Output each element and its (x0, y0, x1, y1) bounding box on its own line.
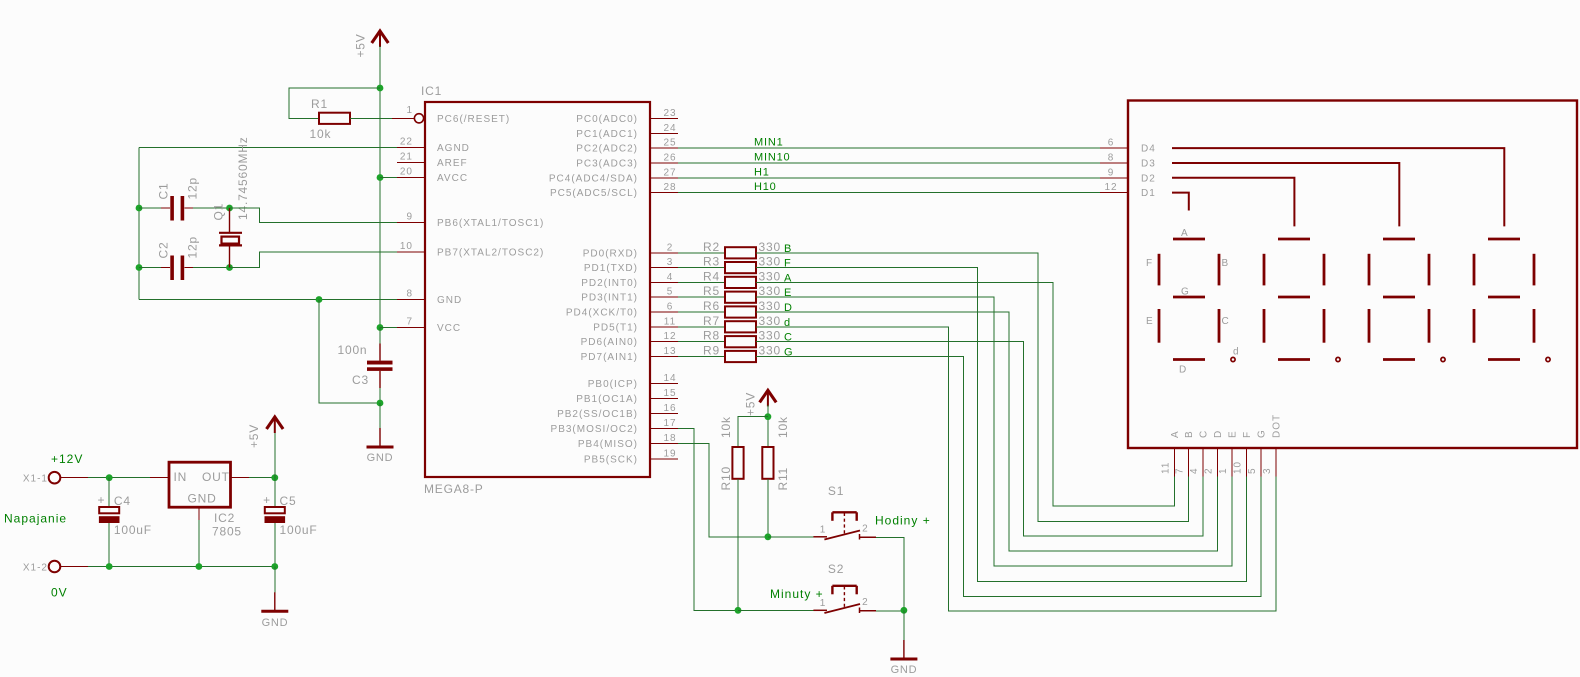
wire R11 bottom to S1 row (767, 479, 769, 537)
svg-text:27: 27 (663, 167, 676, 178)
pin 15 PB1(OC1A) (576, 388, 678, 405)
svg-text:PB6(XTAL1/TOSC1): PB6(XTAL1/TOSC1) (437, 218, 544, 229)
net label C (784, 332, 793, 344)
svg-text:12p: 12p (186, 177, 200, 199)
+5V label top (354, 33, 368, 57)
svg-text:PD6(AIN0): PD6(AIN0) (581, 337, 638, 348)
svg-text:AVCC: AVCC (437, 173, 468, 184)
wire S1 right down to GND node (876, 537, 904, 610)
pin 16 PB2(SS/OC1B) (557, 403, 678, 420)
ground symbol buttons (890, 640, 917, 676)
svg-text:MIN1: MIN1 (754, 137, 783, 149)
svg-text:S1: S1 (828, 484, 844, 498)
svg-text:PC2(ADC2): PC2(ADC2) (576, 144, 638, 155)
svg-text:26: 26 (663, 153, 676, 164)
svg-text:20: 20 (400, 167, 413, 178)
svg-text:12: 12 (663, 331, 676, 342)
junction C3/GND (377, 400, 384, 407)
svg-text:PD0(RXD): PD0(RXD) (583, 248, 638, 259)
svg-text:0V: 0V (51, 586, 68, 600)
junction OUT/C5/+5V (271, 474, 278, 481)
svg-text:7805: 7805 (212, 525, 242, 539)
wire to GND below C3 (379, 403, 381, 428)
svg-text:23: 23 (663, 108, 676, 119)
svg-text:1: 1 (1218, 467, 1229, 474)
svg-text:9: 9 (406, 212, 413, 223)
svg-text:5: 5 (667, 287, 674, 298)
svg-text:21: 21 (400, 152, 413, 163)
pin 13 PD7(AIN1) (581, 346, 678, 363)
svg-text:S2: S2 (828, 562, 844, 576)
wire S2 left (738, 609, 813, 611)
svg-text:R10: R10 (719, 466, 733, 490)
wire R1 branch from +5V (289, 88, 380, 118)
svg-text:2: 2 (862, 523, 869, 534)
display segment pin 4 C (1189, 430, 1210, 477)
pin 6 PD4(XCK/T0) (566, 302, 678, 319)
svg-text:Napajanie: Napajanie (4, 512, 67, 526)
svg-text:D: D (1213, 430, 1224, 438)
svg-text:PD2(INT0): PD2(INT0) (581, 278, 638, 289)
wire down to GND regulator (274, 567, 276, 593)
svg-text:22: 22 (400, 137, 413, 148)
svg-text:2: 2 (862, 597, 869, 608)
svg-text:A: A (1181, 228, 1189, 239)
svg-text:6: 6 (1108, 138, 1115, 149)
+5V label regulator (247, 424, 261, 448)
display digit select pin D4 (1141, 144, 1156, 155)
svg-text:8: 8 (1108, 153, 1115, 164)
wire pin 5 to R5 (678, 296, 725, 298)
svg-text:6: 6 (667, 302, 674, 313)
net label A (784, 272, 792, 284)
junction C1 left (136, 205, 143, 212)
svg-text:R6: R6 (703, 299, 720, 313)
internal wire D3 (1172, 163, 1399, 226)
wire S1 left (768, 536, 814, 538)
svg-text:A: A (1170, 430, 1181, 438)
svg-text:1: 1 (406, 105, 413, 116)
svg-text:330: 330 (759, 344, 781, 358)
pin 17 PB3(MOSI/OC2) (551, 418, 678, 435)
svg-text:D1: D1 (1141, 188, 1156, 199)
svg-text:Minuty +: Minuty + (770, 587, 824, 601)
wire GND net bottom run to pin 8 (139, 299, 397, 301)
resistor R6 330 (703, 299, 781, 318)
resistor R7 330 (703, 314, 781, 333)
svg-text:7: 7 (406, 317, 413, 328)
svg-text:C2: C2 (157, 242, 171, 259)
svg-text:330: 330 (759, 329, 781, 343)
svg-text:GND: GND (188, 492, 217, 506)
svg-text:+5V: +5V (354, 33, 368, 57)
net label G (784, 347, 793, 359)
svg-text:4: 4 (667, 272, 674, 283)
wire +5V to R10/R11 (767, 405, 769, 447)
+5V supply symbol top (372, 31, 389, 47)
crystal Q1 14.74560MHz (212, 136, 251, 267)
pin 2 PD0(RXD) (583, 242, 678, 259)
display segment pin 10 F (1233, 431, 1254, 477)
svg-text:PD3(INT1): PD3(INT1) (581, 293, 638, 304)
svg-text:10: 10 (1233, 461, 1244, 474)
display segment pin 2 D (1203, 430, 1224, 477)
display segment pin 11 A (1160, 430, 1181, 476)
svg-text:11: 11 (664, 316, 676, 327)
net label F (784, 258, 792, 270)
pin stub X1-1 (60, 477, 88, 479)
net label B (784, 243, 792, 255)
svg-text:12: 12 (1104, 182, 1117, 193)
svg-text:GND: GND (891, 664, 918, 676)
junction GND run / C3 branch (316, 296, 323, 303)
wire pin 3 to R3 (678, 267, 725, 269)
svg-text:AREF: AREF (437, 158, 468, 169)
display digit select pin D3 (1141, 159, 1156, 170)
wire net B to display (756, 253, 1188, 522)
svg-text:3: 3 (1262, 467, 1273, 474)
svg-text:PC1(ADC1): PC1(ADC1) (576, 129, 638, 140)
svg-text:5: 5 (1247, 467, 1258, 474)
pin 7 VCC (397, 317, 461, 335)
resistor R1 10k (310, 97, 351, 141)
wire net C to display (756, 342, 1203, 537)
svg-text:PC4(ADC4/SDA): PC4(ADC4/SDA) (549, 173, 638, 184)
wire net MIN10 (678, 152, 1100, 164)
7-segment digit 3 (1369, 239, 1445, 362)
switch S2 (813, 562, 876, 613)
net label d (784, 317, 791, 329)
junction VCC (377, 324, 397, 331)
svg-text:GND: GND (367, 452, 394, 464)
svg-text:330: 330 (759, 284, 781, 298)
svg-text:28: 28 (663, 182, 676, 193)
pin 1 stub with inverting bubble (392, 114, 424, 123)
internal wire D4 (1172, 148, 1504, 226)
capacitor C2 12p (139, 236, 200, 280)
capacitor C3 100n (338, 328, 393, 389)
wire pin 12 to R8 (678, 341, 725, 343)
svg-text:B: B (1222, 258, 1230, 269)
svg-text:D3: D3 (1141, 159, 1156, 170)
display segment pin 5 G (1247, 429, 1268, 476)
pin 21 AREF (397, 152, 468, 170)
svg-text:AGND: AGND (437, 143, 470, 154)
7-segment digit 4 (1474, 239, 1550, 362)
svg-text:PB3(MOSI/OC2): PB3(MOSI/OC2) (551, 424, 638, 435)
svg-text:2: 2 (1203, 467, 1214, 474)
wire C3 bottom (379, 388, 381, 403)
svg-text:F: F (1242, 431, 1253, 438)
svg-text:16: 16 (663, 403, 676, 414)
svg-text:C: C (1222, 316, 1230, 327)
svg-text:PB7(XTAL2/TOSC2): PB7(XTAL2/TOSC2) (437, 248, 544, 259)
svg-text:100n: 100n (338, 343, 368, 357)
wire AGND net top run (139, 147, 397, 149)
svg-text:MIN10: MIN10 (754, 152, 790, 164)
pin 10 PB7(XTAL2/TOSC2) (397, 241, 544, 259)
svg-text:1: 1 (820, 524, 827, 535)
svg-text:PD1(TXD): PD1(TXD) (584, 263, 638, 274)
wire pin 4 to R4 (678, 281, 725, 283)
pin 4 PD2(INT0) (581, 272, 678, 289)
svg-text:R1: R1 (311, 97, 328, 111)
capacitor C4 100uF (97, 478, 151, 567)
pin 1 PC6(/RESET) name (406, 105, 510, 125)
wire ground-left vertical (138, 148, 140, 300)
junction +5V R10 branch (765, 413, 772, 420)
pin 20 AVCC (397, 167, 468, 185)
pin 3 PD1(TXD) (584, 257, 678, 274)
svg-text:7: 7 (1174, 467, 1185, 474)
svg-text:100uF: 100uF (280, 523, 318, 537)
pin stub 7805 IN (150, 477, 169, 479)
display LD1 4-digit 7-segment body (1128, 101, 1577, 449)
wire pin 11 to R7 (678, 326, 725, 328)
svg-text:+: + (263, 493, 271, 507)
svg-text:VCC: VCC (437, 323, 461, 334)
display segment pin 1 E (1218, 430, 1239, 476)
svg-text:PD4(XCK/T0): PD4(XCK/T0) (566, 308, 638, 319)
wire R1 to pin 1 (350, 117, 392, 119)
svg-text:DOT: DOT (1272, 414, 1283, 438)
svg-text:H10: H10 (754, 181, 777, 193)
display pin 9 stub (1100, 167, 1128, 178)
svg-text:d: d (1233, 347, 1240, 358)
pin 14 PB0(ICP) (588, 373, 678, 390)
svg-text:9: 9 (1108, 167, 1115, 178)
svg-text:E: E (1228, 430, 1239, 438)
wire net G to display (756, 357, 1261, 597)
wire pin 18 to S1 row (678, 443, 768, 536)
svg-text:4: 4 (1189, 467, 1200, 474)
svg-text:+5V: +5V (744, 392, 758, 416)
junction crystal top (226, 205, 233, 212)
net label Hodiny + (875, 514, 931, 528)
display pin 12 stub (1100, 182, 1128, 193)
svg-text:10: 10 (400, 241, 413, 252)
wire net E to display (756, 297, 1232, 566)
svg-text:8: 8 (406, 289, 413, 300)
display pin 6 stub (1100, 138, 1128, 149)
svg-text:10k: 10k (719, 416, 733, 438)
wire S2 right (876, 610, 904, 612)
svg-text:R5: R5 (703, 284, 720, 298)
junction C2 left (136, 264, 143, 271)
svg-text:R9: R9 (703, 344, 720, 358)
display segment pin 3 DOT (1262, 414, 1283, 477)
svg-text:PB5(SCK): PB5(SCK) (584, 454, 638, 465)
pin stub 7805 GND (198, 507, 200, 520)
wire net D to display (756, 312, 1217, 551)
svg-text:D4: D4 (1141, 144, 1156, 155)
ground symbol below C3 (367, 428, 394, 464)
junction R10/S2 row (735, 607, 742, 614)
resistor R4 330 (703, 269, 781, 288)
wire C1 right to crystal top (193, 207, 230, 209)
svg-text:3: 3 (667, 257, 674, 268)
wire branch to R10 top (738, 417, 768, 447)
display digit select pin D1 (1141, 188, 1156, 199)
svg-text:PC6(/RESET): PC6(/RESET) (437, 114, 510, 125)
svg-text:PB2(SS/OC1B): PB2(SS/OC1B) (557, 409, 638, 420)
svg-text:G: G (1257, 429, 1268, 438)
svg-text:B: B (1184, 430, 1195, 438)
svg-text:C: C (1198, 430, 1209, 438)
wire net H10 (678, 181, 1100, 193)
svg-text:330: 330 (759, 255, 781, 269)
net label Napajanie (4, 512, 67, 526)
svg-text:R4: R4 (703, 269, 720, 283)
wire pin 6 to R6 (678, 311, 725, 313)
svg-text:15: 15 (663, 388, 676, 399)
svg-text:10k: 10k (776, 416, 790, 438)
wire X1-1 to 7805 IN (88, 477, 150, 479)
net label E (784, 287, 792, 299)
net label 0V (51, 586, 68, 600)
svg-text:C1: C1 (157, 183, 171, 200)
connector pad X1-2 (23, 561, 60, 574)
capacitor C5 100uF (263, 478, 317, 567)
junction 7805 GND (196, 563, 203, 570)
svg-text:H1: H1 (754, 166, 770, 178)
svg-text:24: 24 (663, 123, 676, 134)
pin 26 PC3(ADC3) (576, 153, 678, 170)
pin 19 PB5(SCK) (584, 448, 678, 465)
svg-text:PB4(MISO): PB4(MISO) (578, 439, 638, 450)
pin 8 GND (397, 289, 462, 307)
svg-text:E: E (1146, 316, 1154, 327)
resistor R10 10k (719, 416, 744, 490)
pin 11 PD5(T1) (593, 316, 678, 333)
svg-text:+: + (97, 493, 105, 507)
wire 7805 OUT to C5/+5V (249, 477, 275, 479)
svg-text:PD5(T1): PD5(T1) (593, 322, 638, 333)
svg-text:11: 11 (1160, 462, 1171, 474)
svg-text:Hodiny +: Hodiny + (875, 514, 931, 528)
svg-text:R3: R3 (703, 255, 720, 269)
svg-text:14: 14 (663, 373, 676, 384)
svg-text:25: 25 (663, 138, 676, 149)
display segment pin 7 B (1174, 430, 1195, 476)
svg-text:10k: 10k (310, 127, 332, 141)
internal wire D2 (1172, 178, 1294, 227)
ground symbol regulator (261, 592, 288, 629)
svg-text:2: 2 (667, 242, 674, 253)
svg-text:Q1: Q1 (212, 203, 226, 221)
svg-text:330: 330 (759, 299, 781, 313)
wire net F to display (756, 268, 1247, 582)
junction +5V / R1 branch (377, 85, 384, 92)
svg-text:OUT: OUT (202, 470, 230, 484)
net label Minuty + (770, 587, 824, 601)
wire 7805 GND down (198, 520, 200, 567)
svg-text:18: 18 (663, 433, 676, 444)
pin stub 7805 OUT (231, 477, 250, 479)
svg-text:PC0(ADC0): PC0(ADC0) (576, 114, 638, 125)
svg-text:14.74560MHz: 14.74560MHz (236, 136, 250, 220)
svg-text:C4: C4 (114, 494, 131, 508)
junction C4 bottom (106, 563, 113, 570)
wire pin 17 to S2 row (678, 429, 738, 611)
wire up to +5V arrow (274, 432, 276, 478)
junction AVCC (377, 174, 397, 181)
voltage regulator IC2 7805 (169, 462, 242, 538)
svg-text:GND: GND (437, 295, 462, 306)
svg-text:G: G (1181, 287, 1190, 298)
connector pad X1-1 (23, 472, 60, 485)
svg-text:PC3(ADC3): PC3(ADC3) (576, 159, 638, 170)
+5V label buttons (744, 392, 758, 416)
resistor R2 330 (703, 240, 781, 259)
pin 9 PB6(XTAL1/TOSC1) (397, 212, 544, 230)
pin 5 PD3(INT1) (581, 287, 678, 304)
svg-text:D2: D2 (1141, 173, 1156, 184)
svg-text:X1-1: X1-1 (23, 474, 48, 485)
svg-text:100uF: 100uF (114, 523, 152, 537)
wire GND branch down to C3 bottom (319, 300, 378, 404)
resistor R8 330 (703, 329, 781, 348)
wire crystal bottom to pin 10 (230, 252, 398, 268)
svg-text:PB1(OC1A): PB1(OC1A) (576, 394, 638, 405)
svg-text:C5: C5 (280, 494, 297, 508)
wire R10 bottom to S2 row (737, 479, 739, 611)
junction crystal bottom (226, 264, 233, 271)
svg-text:PC5(ADC5/SCL): PC5(ADC5/SCL) (550, 188, 638, 199)
svg-text:330: 330 (759, 240, 781, 254)
pin 25 PC2(ADC2) (576, 138, 678, 155)
svg-text:F: F (1146, 258, 1153, 269)
IC U1 MEGA8-P body (421, 84, 650, 496)
junction S1/S2/GND (901, 607, 908, 614)
svg-text:R2: R2 (703, 240, 720, 254)
wire crystal top to pin 9 (230, 208, 398, 223)
wire pin 2 to R2 (678, 252, 725, 254)
svg-text:330: 330 (759, 269, 781, 283)
junction C5 bottom (271, 563, 278, 570)
svg-text:GND: GND (262, 617, 289, 629)
wire C2 right to crystal bottom (193, 267, 230, 269)
segment labels digit 1 (1146, 228, 1240, 376)
junction C4 top (106, 474, 113, 481)
svg-text:C3: C3 (352, 373, 369, 387)
capacitor C1 12p (139, 177, 200, 220)
display digit select pin D2 (1141, 173, 1156, 184)
svg-text:MEGA8-P: MEGA8-P (424, 482, 484, 496)
svg-text:12p: 12p (186, 236, 200, 258)
svg-text:IC1: IC1 (421, 84, 442, 98)
svg-text:330: 330 (759, 314, 781, 328)
wire down to GND buttons (903, 610, 905, 640)
pin stub X1-2 (60, 566, 88, 568)
svg-text:R11: R11 (776, 467, 790, 491)
wire net MIN1 (678, 137, 1100, 149)
svg-text:R7: R7 (703, 314, 720, 328)
wire net d to display (756, 327, 1276, 611)
pin 28 PC5(ADC5/SCL) (550, 182, 678, 199)
junction R11/S1 row (765, 533, 772, 540)
svg-text:R8: R8 (703, 329, 720, 343)
resistor R5 330 (703, 284, 781, 303)
+5V supply symbol regulator (267, 417, 284, 433)
resistor R9 330 (703, 344, 781, 363)
display pin 8 stub (1100, 153, 1128, 164)
svg-text:PB0(ICP): PB0(ICP) (588, 379, 638, 390)
net label D (784, 302, 793, 314)
pin 23 PC0(ADC0) (576, 108, 678, 125)
svg-text:X1-2: X1-2 (23, 563, 48, 574)
svg-text:13: 13 (663, 346, 676, 357)
